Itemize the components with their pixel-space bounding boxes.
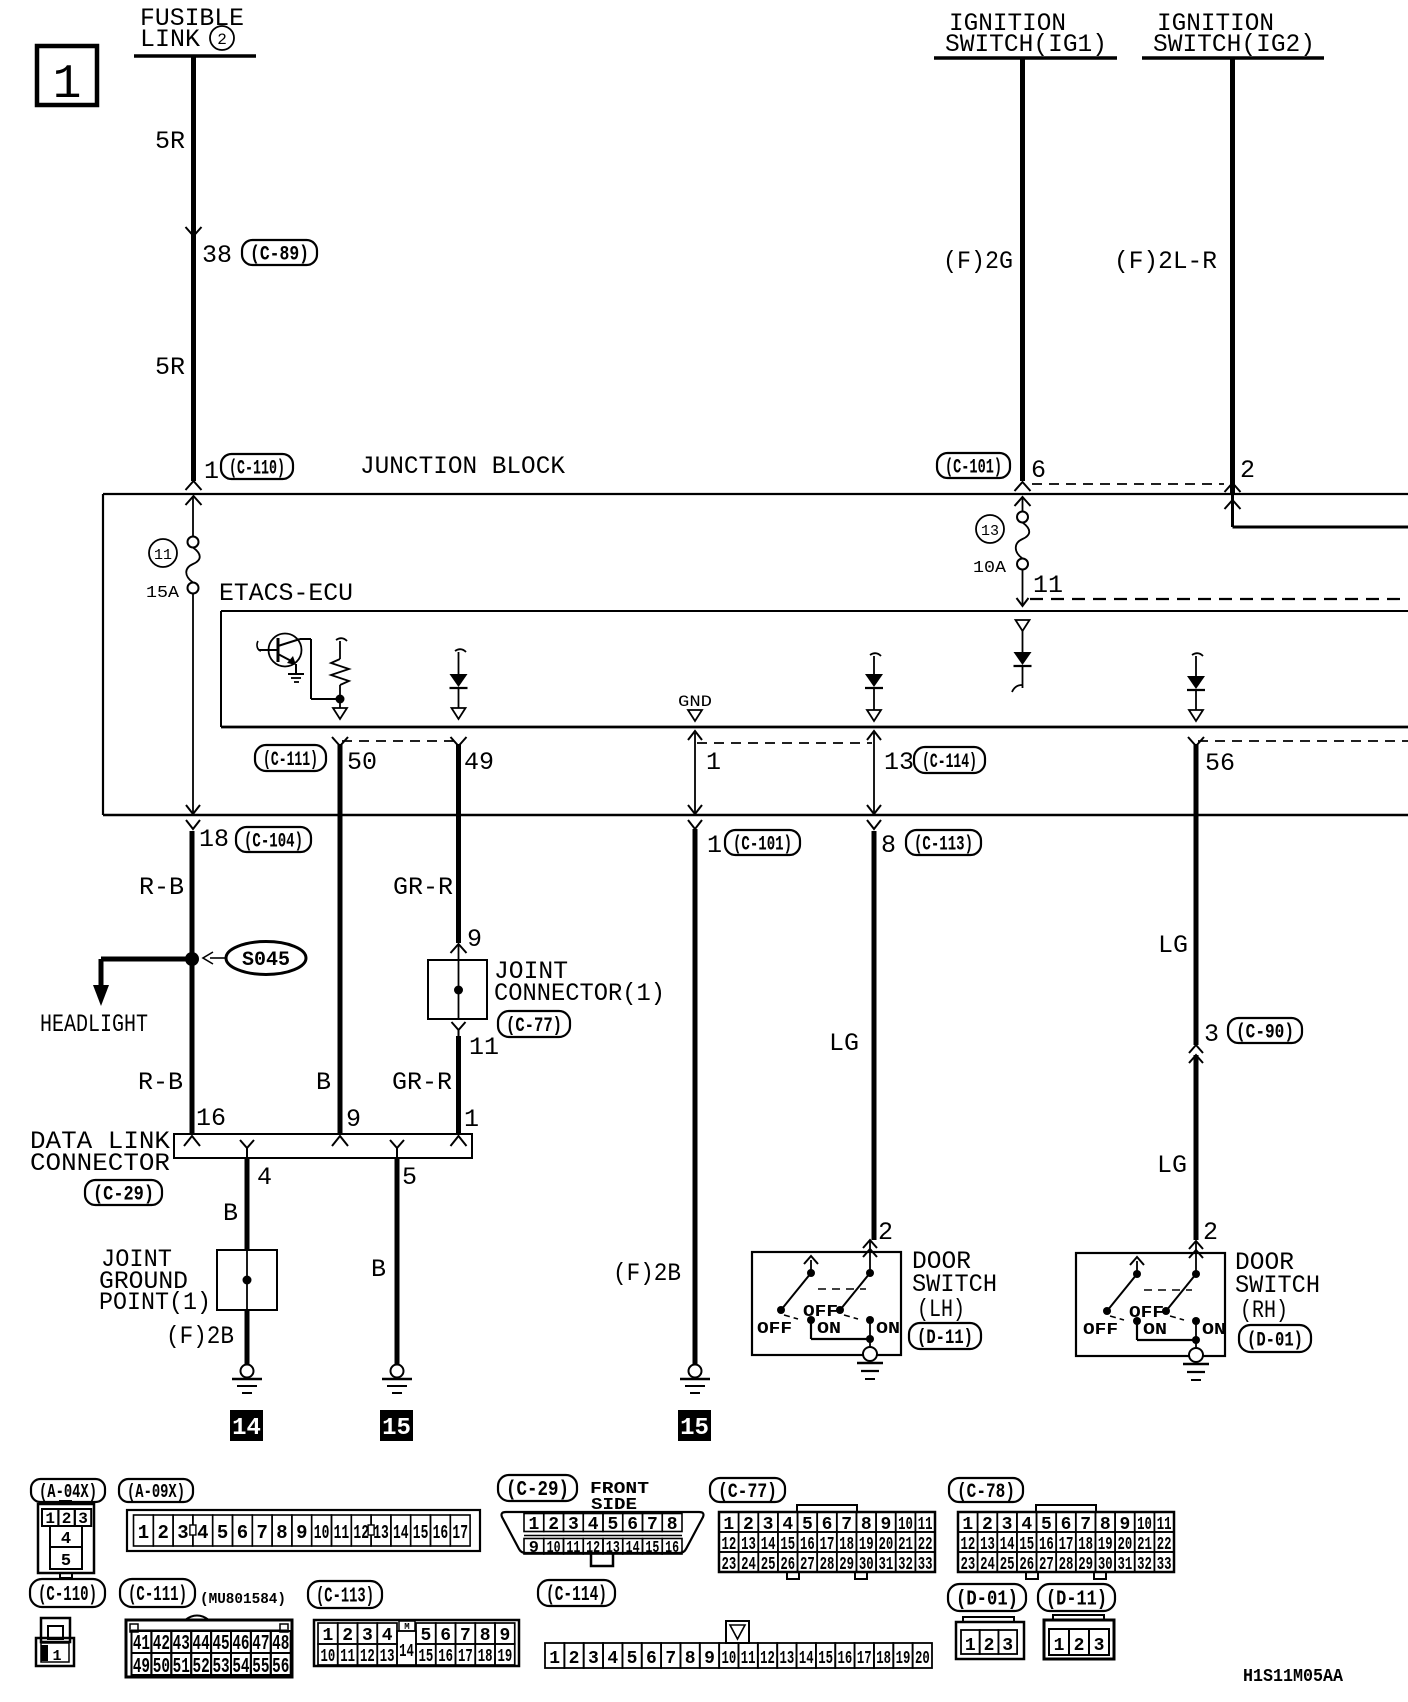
connector label C-101 pin 6 bbox=[937, 453, 1010, 478]
svg-text:13: 13 bbox=[981, 523, 999, 540]
connector label D-01 (bottom) bbox=[948, 1584, 1026, 1611]
svg-text:4: 4 bbox=[588, 1515, 599, 1535]
svg-text:1: 1 bbox=[549, 1649, 560, 1669]
svg-text:(C-111): (C-111) bbox=[128, 1584, 187, 1607]
svg-text:8: 8 bbox=[685, 1649, 696, 1669]
svg-text:S045: S045 bbox=[242, 949, 290, 972]
svg-text:2: 2 bbox=[217, 31, 227, 49]
svg-text:51: 51 bbox=[173, 1656, 190, 1679]
connector label A-04X bbox=[31, 1479, 105, 1502]
splice label S045 bbox=[226, 942, 306, 975]
connector C-29 pinout (OBD trapezoid) bbox=[502, 1512, 704, 1553]
svg-text:2: 2 bbox=[1203, 1218, 1218, 1247]
svg-text:16: 16 bbox=[433, 1522, 449, 1544]
svg-text:56: 56 bbox=[1205, 749, 1235, 778]
svg-text:16: 16 bbox=[196, 1104, 226, 1133]
svg-text:33: 33 bbox=[1157, 1555, 1172, 1575]
svg-text:10: 10 bbox=[721, 1649, 736, 1669]
svg-text:12: 12 bbox=[586, 1539, 600, 1558]
svg-text:13: 13 bbox=[373, 1522, 389, 1544]
svg-text:8: 8 bbox=[881, 831, 896, 860]
svg-text:15: 15 bbox=[818, 1649, 833, 1669]
svg-text:4: 4 bbox=[607, 1649, 618, 1669]
svg-text:11: 11 bbox=[469, 1033, 499, 1062]
svg-text:10A: 10A bbox=[973, 559, 1007, 578]
ground tag 14 bbox=[230, 1410, 263, 1441]
resistor R1 (ETACS internal) bbox=[336, 638, 347, 641]
svg-text:15: 15 bbox=[382, 1415, 411, 1442]
data link connector C-29 box bbox=[174, 1134, 472, 1158]
pin 18 / connector C-104 bbox=[186, 805, 200, 814]
wire (F)2B to ground 14 bbox=[245, 1310, 250, 1364]
svg-text:24: 24 bbox=[741, 1555, 756, 1575]
svg-text:16: 16 bbox=[438, 1647, 453, 1667]
svg-text:49: 49 bbox=[133, 1656, 150, 1679]
wire B: DLC pin 5 to ground 15 bbox=[395, 1158, 400, 1364]
svg-text:14: 14 bbox=[799, 1649, 814, 1669]
fuse 13 (10A) bbox=[1022, 497, 1024, 512]
ground tag 15b bbox=[678, 1410, 711, 1441]
svg-text:1: 1 bbox=[53, 58, 82, 112]
svg-text:31: 31 bbox=[879, 1555, 894, 1575]
wire: IG2 (F)2L-R down to junction block bbox=[1230, 58, 1235, 494]
svg-text:1: 1 bbox=[707, 831, 722, 860]
svg-text:B: B bbox=[223, 1199, 238, 1228]
svg-text:10: 10 bbox=[314, 1522, 330, 1544]
svg-text:7: 7 bbox=[647, 1515, 658, 1535]
svg-text:ETACS-ECU: ETACS-ECU bbox=[219, 579, 353, 608]
svg-text:(A-09X): (A-09X) bbox=[127, 1481, 185, 1503]
svg-text:55: 55 bbox=[252, 1656, 269, 1679]
svg-text:R-B: R-B bbox=[139, 873, 184, 902]
dashed pin50-pin49 bbox=[342, 740, 456, 742]
svg-text:(F)2B: (F)2B bbox=[166, 1322, 234, 1351]
svg-text:6: 6 bbox=[237, 1522, 248, 1544]
svg-text:54: 54 bbox=[232, 1656, 249, 1679]
svg-text:5: 5 bbox=[607, 1515, 618, 1535]
svg-text:6: 6 bbox=[646, 1649, 657, 1669]
svg-text:(C-114): (C-114) bbox=[546, 1584, 607, 1607]
svg-text:27: 27 bbox=[1039, 1555, 1054, 1575]
svg-text:5: 5 bbox=[402, 1163, 417, 1192]
svg-text:GR-R: GR-R bbox=[393, 873, 453, 902]
svg-text:(D-01): (D-01) bbox=[1247, 1329, 1303, 1352]
svg-text:13: 13 bbox=[884, 748, 914, 777]
svg-text:13: 13 bbox=[380, 1647, 395, 1667]
svg-text:11: 11 bbox=[340, 1647, 355, 1667]
connector label A-09X bbox=[119, 1479, 193, 1502]
svg-text:(LH): (LH) bbox=[917, 1295, 965, 1324]
svg-text:B: B bbox=[316, 1068, 331, 1097]
svg-text:11: 11 bbox=[154, 547, 172, 564]
svg-text:LG: LG bbox=[1158, 931, 1188, 960]
svg-text:32: 32 bbox=[1137, 1555, 1152, 1575]
svg-text:9: 9 bbox=[467, 925, 482, 954]
svg-text:2: 2 bbox=[984, 1636, 995, 1656]
svg-text:B: B bbox=[371, 1255, 386, 1284]
DLC pin 5 terminal bbox=[390, 1140, 404, 1148]
svg-text:5: 5 bbox=[420, 1626, 431, 1646]
svg-text:28: 28 bbox=[820, 1555, 835, 1575]
svg-text:23: 23 bbox=[721, 1555, 736, 1575]
dashed wire pin 11 to right edge bbox=[1030, 598, 1408, 600]
connector label C-78 bbox=[949, 1478, 1023, 1502]
svg-text:28: 28 bbox=[1059, 1555, 1074, 1575]
svg-text:6: 6 bbox=[627, 1515, 638, 1535]
dashed pin1-pin13 bbox=[697, 742, 872, 744]
svg-text:ON: ON bbox=[1143, 1321, 1167, 1340]
svg-text:19: 19 bbox=[896, 1649, 911, 1669]
svg-text:1: 1 bbox=[322, 1626, 333, 1646]
svg-text:(F)2B: (F)2B bbox=[613, 1259, 681, 1288]
svg-text:9: 9 bbox=[346, 1105, 361, 1134]
svg-text:11: 11 bbox=[1033, 571, 1063, 600]
svg-text:18: 18 bbox=[478, 1647, 493, 1667]
svg-text:25: 25 bbox=[1000, 1555, 1015, 1575]
svg-text:12: 12 bbox=[760, 1649, 775, 1669]
svg-text:5: 5 bbox=[627, 1649, 638, 1669]
wire (F)2B: ETACS GND pin 1 to ground 15 bbox=[693, 829, 698, 1364]
svg-text:3: 3 bbox=[568, 1515, 579, 1535]
svg-text:2: 2 bbox=[1074, 1636, 1085, 1656]
svg-text:5: 5 bbox=[217, 1522, 228, 1544]
splice S045 junction dot bbox=[185, 952, 199, 966]
svg-text:LG: LG bbox=[1157, 1151, 1187, 1180]
svg-text:HEADLIGHT: HEADLIGHT bbox=[40, 1010, 148, 1039]
connector crossing C-89 chevron bbox=[186, 227, 202, 236]
svg-text:M: M bbox=[404, 1622, 409, 1632]
svg-text:2: 2 bbox=[569, 1649, 580, 1669]
svg-text:POINT(1): POINT(1) bbox=[99, 1288, 211, 1317]
svg-text:(MU801584): (MU801584) bbox=[200, 1592, 286, 1608]
connector A-04X pinout bbox=[38, 1504, 94, 1573]
svg-text:10: 10 bbox=[320, 1647, 335, 1667]
svg-text:(C-104): (C-104) bbox=[244, 830, 303, 853]
svg-text:LINK: LINK bbox=[140, 25, 200, 54]
svg-text:4: 4 bbox=[197, 1522, 208, 1544]
wire B: pin50 down to data link connector pin 9 bbox=[338, 744, 343, 1134]
svg-text:2: 2 bbox=[878, 1218, 893, 1247]
fuse 11 (15A) bbox=[192, 497, 194, 537]
svg-text:(C-113): (C-113) bbox=[914, 833, 973, 856]
svg-text:3: 3 bbox=[1204, 1020, 1219, 1049]
svg-text:GND: GND bbox=[678, 693, 712, 711]
svg-text:ON: ON bbox=[876, 1320, 900, 1339]
svg-text:3: 3 bbox=[1002, 1636, 1013, 1656]
pin 56 bbox=[1188, 737, 1204, 746]
connector C-77 pinout bbox=[797, 1505, 857, 1512]
connector label C-110 (bottom) bbox=[30, 1579, 105, 1607]
door switch (LH) bbox=[752, 1252, 901, 1355]
svg-text:(C-29): (C-29) bbox=[506, 1479, 569, 1502]
svg-text:8: 8 bbox=[480, 1626, 491, 1646]
wire R-B: pin18 down to data link connector bbox=[190, 831, 195, 1134]
svg-text:32: 32 bbox=[898, 1555, 913, 1575]
headlight branch wire bbox=[101, 957, 192, 962]
door switch (RH) bbox=[1076, 1253, 1225, 1356]
svg-text:18: 18 bbox=[199, 825, 229, 854]
svg-text:5R: 5R bbox=[155, 353, 185, 382]
connector C-114 pinout bbox=[545, 1643, 564, 1668]
svg-text:38: 38 bbox=[202, 241, 232, 270]
diode D1 pin 49 (ETACS internal) bbox=[455, 649, 466, 652]
svg-text:1: 1 bbox=[204, 457, 219, 486]
svg-text:14: 14 bbox=[393, 1522, 409, 1544]
svg-text:12: 12 bbox=[353, 1522, 369, 1544]
svg-text:12: 12 bbox=[360, 1647, 375, 1667]
svg-text:7: 7 bbox=[256, 1522, 267, 1544]
svg-text:27: 27 bbox=[800, 1555, 815, 1575]
svg-text:4: 4 bbox=[257, 1163, 272, 1192]
svg-text:14: 14 bbox=[399, 1642, 414, 1662]
connector label C-113 (bottom) bbox=[308, 1581, 382, 1608]
svg-text:OFF: OFF bbox=[1083, 1321, 1118, 1340]
svg-text:5R: 5R bbox=[155, 127, 185, 156]
ETACS-ECU box bbox=[221, 610, 1408, 612]
wire GR-R: joint connector to DLC pin 1 bbox=[456, 1036, 461, 1134]
svg-text:2: 2 bbox=[548, 1515, 559, 1535]
svg-text:(C-29): (C-29) bbox=[93, 1183, 154, 1206]
DLC pin 4 terminal bbox=[240, 1140, 254, 1148]
svg-text:20: 20 bbox=[915, 1649, 930, 1669]
wire: fusible link 5R down to junction block bbox=[191, 57, 196, 481]
svg-text:15: 15 bbox=[680, 1415, 709, 1442]
svg-text:19: 19 bbox=[497, 1647, 512, 1667]
svg-text:ON: ON bbox=[1202, 1321, 1226, 1340]
svg-text:3: 3 bbox=[177, 1522, 188, 1544]
svg-text:1: 1 bbox=[1054, 1636, 1065, 1656]
svg-text:18: 18 bbox=[876, 1649, 891, 1669]
svg-text:33: 33 bbox=[918, 1555, 933, 1575]
svg-text:(C-113): (C-113) bbox=[316, 1586, 374, 1609]
svg-text:50: 50 bbox=[347, 748, 377, 777]
svg-text:(D-11): (D-11) bbox=[917, 1327, 973, 1350]
svg-text:9: 9 bbox=[529, 1539, 539, 1558]
svg-text:1: 1 bbox=[965, 1636, 976, 1656]
svg-text:(D-01): (D-01) bbox=[956, 1589, 1018, 1612]
svg-text:11: 11 bbox=[334, 1522, 350, 1544]
svg-text:14: 14 bbox=[626, 1539, 640, 1558]
connector label C-29 (front side) bbox=[498, 1475, 577, 1501]
svg-text:15: 15 bbox=[645, 1539, 659, 1558]
svg-text:(C-114): (C-114) bbox=[922, 751, 977, 774]
svg-text:OFF: OFF bbox=[757, 1320, 792, 1339]
pin 50 bbox=[332, 737, 348, 746]
pin 1 C-101 thin wire w/ arrows bbox=[694, 733, 696, 813]
svg-text:9: 9 bbox=[499, 1626, 510, 1646]
svg-text:4: 4 bbox=[382, 1626, 393, 1646]
svg-text:(C-111): (C-111) bbox=[263, 749, 318, 772]
svg-text:10: 10 bbox=[547, 1539, 561, 1558]
svg-text:6: 6 bbox=[1031, 456, 1046, 485]
wire LG: pin 56 to door switch RH bbox=[1194, 744, 1199, 1045]
svg-text:7: 7 bbox=[460, 1626, 471, 1646]
svg-text:3: 3 bbox=[588, 1649, 599, 1669]
svg-text:(D-11): (D-11) bbox=[1046, 1589, 1107, 1612]
svg-text:49: 49 bbox=[464, 748, 494, 777]
connector C-113 pinout bbox=[314, 1620, 519, 1666]
svg-text:(C-101): (C-101) bbox=[945, 456, 1002, 479]
svg-text:14: 14 bbox=[232, 1415, 261, 1442]
svg-text:(C-110): (C-110) bbox=[38, 1584, 97, 1607]
svg-text:1: 1 bbox=[464, 1105, 479, 1134]
connector A-09X pinout bbox=[127, 1510, 480, 1551]
diode D3 pin 11 (ETACS internal) bbox=[1016, 620, 1030, 631]
svg-text:52: 52 bbox=[193, 1656, 210, 1679]
svg-text:1: 1 bbox=[52, 1648, 61, 1665]
svg-text:8: 8 bbox=[667, 1515, 678, 1535]
svg-text:1: 1 bbox=[528, 1515, 539, 1535]
svg-text:GR-R: GR-R bbox=[392, 1068, 452, 1097]
connector C-111 pinout bbox=[126, 1620, 292, 1677]
dashed pin56 to right edge bbox=[1198, 740, 1408, 742]
pin 49 bbox=[451, 737, 467, 746]
connector C-78 pinout bbox=[1036, 1505, 1096, 1512]
svg-text:11: 11 bbox=[566, 1539, 580, 1558]
connector D-01 pinout bbox=[963, 1617, 1014, 1622]
svg-text:(C-78): (C-78) bbox=[957, 1481, 1015, 1504]
dashed link pin6 to pin2 bbox=[1032, 483, 1224, 485]
svg-text:11: 11 bbox=[741, 1649, 756, 1669]
svg-text:5: 5 bbox=[61, 1552, 71, 1571]
diode D2 pin 13 (ETACS internal) bbox=[870, 653, 881, 656]
connector C-110 pinout bbox=[41, 1618, 70, 1642]
svg-text:7: 7 bbox=[665, 1649, 676, 1669]
svg-text:15: 15 bbox=[418, 1647, 433, 1667]
svg-text:JUNCTION BLOCK: JUNCTION BLOCK bbox=[360, 452, 565, 481]
svg-text:1: 1 bbox=[706, 748, 721, 777]
joint ground point (1) box bbox=[217, 1250, 277, 1310]
joint connector (1) C-77 bbox=[458, 944, 460, 960]
svg-text:24: 24 bbox=[980, 1555, 995, 1575]
connector label C-111 pins 50/49 bbox=[255, 745, 326, 771]
ground symbol (F)2B bbox=[689, 1365, 702, 1378]
svg-text:CONNECTOR(1): CONNECTOR(1) bbox=[494, 979, 665, 1008]
svg-text:(F)2L-R: (F)2L-R bbox=[1114, 247, 1217, 276]
svg-text:1: 1 bbox=[138, 1522, 149, 1544]
transistor Q1 (ETACS internal) bbox=[269, 634, 302, 667]
svg-text:13: 13 bbox=[779, 1649, 794, 1669]
svg-text:SWITCH(IG2): SWITCH(IG2) bbox=[1153, 30, 1315, 59]
svg-text:2: 2 bbox=[342, 1626, 353, 1646]
svg-text:2: 2 bbox=[1240, 456, 1255, 485]
ground tag 15 bbox=[380, 1410, 413, 1441]
svg-text:23: 23 bbox=[960, 1555, 975, 1575]
connector D-11 pinout bbox=[1053, 1615, 1104, 1620]
connector label C-89 bbox=[242, 240, 317, 265]
wire: IG1 (F)2G down to junction block bbox=[1020, 58, 1025, 481]
svg-text:6: 6 bbox=[440, 1626, 451, 1646]
svg-text:(C-110): (C-110) bbox=[229, 457, 285, 480]
transistor emitter w/ arrow to internal ground bbox=[278, 654, 295, 663]
svg-text:31: 31 bbox=[1118, 1555, 1133, 1575]
svg-text:(C-77): (C-77) bbox=[506, 1015, 562, 1038]
svg-text:SWITCH(IG1): SWITCH(IG1) bbox=[945, 30, 1107, 59]
svg-text:ON: ON bbox=[817, 1320, 841, 1339]
svg-text:15: 15 bbox=[413, 1522, 429, 1544]
ground symbol 15 bbox=[391, 1365, 404, 1378]
connector label C-114 (bottom) bbox=[538, 1580, 615, 1606]
crossing C-90 chevrons bbox=[1189, 1045, 1203, 1053]
svg-text:25: 25 bbox=[761, 1555, 776, 1575]
svg-text:LG: LG bbox=[829, 1029, 859, 1058]
svg-text:(C-89): (C-89) bbox=[250, 243, 309, 266]
svg-text:CONNECTOR: CONNECTOR bbox=[30, 1149, 170, 1178]
svg-text:17: 17 bbox=[458, 1647, 473, 1667]
svg-text:16: 16 bbox=[665, 1539, 679, 1558]
wire GR-R: pin49 down to joint connector bbox=[456, 744, 461, 943]
svg-text:3: 3 bbox=[1094, 1636, 1105, 1656]
svg-text:3: 3 bbox=[362, 1626, 373, 1646]
page marker box 1 bbox=[37, 46, 97, 105]
pin 13 C-114 thin wire w/ arrows bbox=[873, 733, 875, 813]
svg-text:17: 17 bbox=[452, 1522, 468, 1544]
svg-text:8: 8 bbox=[276, 1522, 287, 1544]
ground symbol 14 bbox=[241, 1365, 254, 1378]
svg-text:17: 17 bbox=[857, 1649, 872, 1669]
svg-text:R-B: R-B bbox=[138, 1068, 183, 1097]
junction block outline bbox=[103, 493, 1408, 495]
crossing arrows into junction block bbox=[1015, 482, 1031, 491]
svg-text:(F)2G: (F)2G bbox=[943, 247, 1013, 276]
wire LG: pin 8 to door switch LH bbox=[872, 831, 877, 1240]
diode D4 pin 56 (ETACS internal) bbox=[1192, 653, 1203, 656]
svg-text:15A: 15A bbox=[146, 584, 180, 603]
connector label C-77 bbox=[710, 1478, 785, 1502]
svg-text:H1S11M05AA: H1S11M05AA bbox=[1243, 1667, 1343, 1687]
svg-text:50: 50 bbox=[153, 1656, 170, 1679]
svg-text:29: 29 bbox=[839, 1555, 854, 1575]
wire: IG2 branch inside junction block bbox=[1231, 494, 1234, 527]
wire B: DLC pin 4 to joint ground point bbox=[245, 1158, 250, 1250]
svg-text:2: 2 bbox=[157, 1522, 168, 1544]
svg-text:53: 53 bbox=[212, 1656, 229, 1679]
svg-text:(C-77): (C-77) bbox=[718, 1481, 777, 1504]
svg-text:56: 56 bbox=[272, 1656, 289, 1679]
svg-text:(C-101): (C-101) bbox=[733, 833, 792, 856]
svg-text:(A-04X): (A-04X) bbox=[39, 1481, 97, 1503]
svg-text:9: 9 bbox=[296, 1522, 307, 1544]
connector label D-11 (bottom) bbox=[1038, 1584, 1115, 1611]
svg-text:29: 29 bbox=[1078, 1555, 1093, 1575]
svg-text:(RH): (RH) bbox=[1240, 1296, 1288, 1325]
svg-text:(C-90): (C-90) bbox=[1236, 1021, 1294, 1044]
svg-text:9: 9 bbox=[704, 1649, 715, 1669]
svg-text:16: 16 bbox=[838, 1649, 853, 1669]
connector label C-111 (bottom) bbox=[120, 1579, 195, 1607]
